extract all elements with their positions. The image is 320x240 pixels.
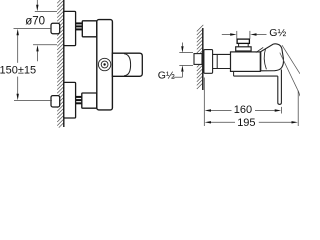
svg-text:150±15: 150±15 [0, 64, 36, 76]
svg-text:ø70: ø70 [25, 16, 45, 28]
svg-text:195: 195 [237, 117, 255, 129]
svg-text:G½: G½ [269, 27, 286, 39]
svg-text:G½: G½ [158, 70, 175, 82]
svg-text:160: 160 [234, 104, 252, 116]
